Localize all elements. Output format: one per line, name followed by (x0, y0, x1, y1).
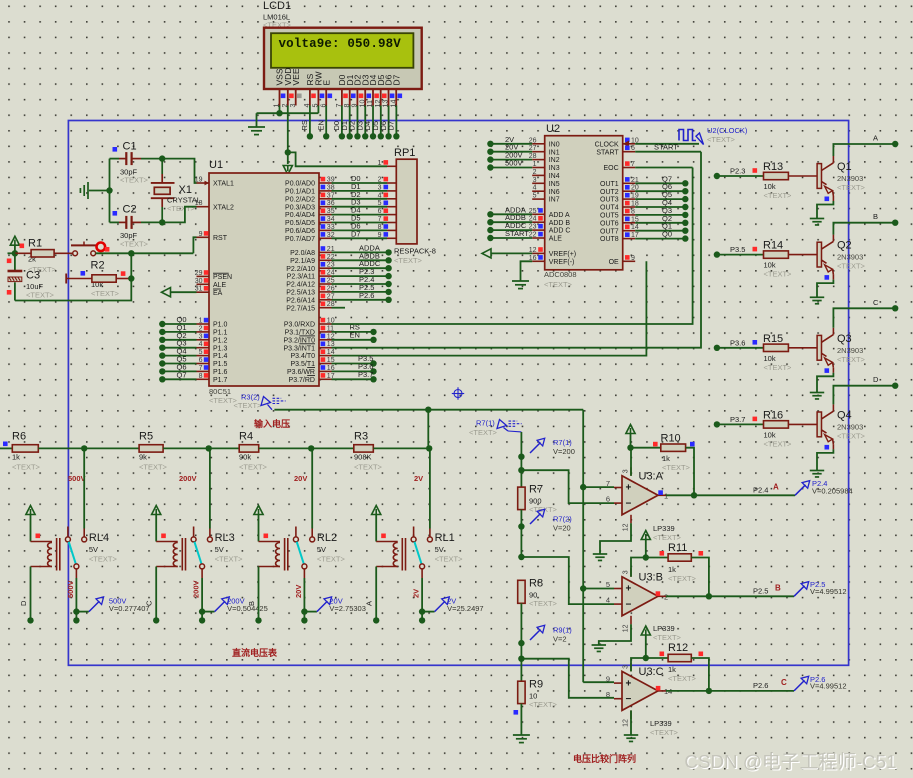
svg-text:START: START (654, 143, 678, 152)
svg-text:1: 1 (533, 161, 537, 168)
svg-text:V=2.75303: V=2.75303 (329, 604, 366, 613)
ground left of crystal (89, 190, 110, 192)
push button (73, 251, 78, 256)
svg-text:B: B (247, 601, 256, 606)
U2 ALE pin (532, 237, 545, 239)
svg-text:1k: 1k (668, 565, 676, 574)
U2 pin OUT4 net Q4 (623, 206, 636, 208)
svg-text:90k: 90k (239, 453, 251, 462)
svg-text:U3:B: U3:B (639, 571, 663, 583)
voltage probe R7(1) V=200 (530, 443, 541, 454)
svg-text:LCD1: LCD1 (263, 0, 291, 12)
schematic frame border (68, 121, 848, 666)
svg-text:−: − (626, 499, 632, 510)
wire U3:C pin3 jog to R12 junction (631, 658, 646, 671)
svg-text:P2.3/A11: P2.3/A11 (287, 274, 315, 281)
svg-text:200V: 200V (179, 474, 197, 483)
svg-text:P3.7: P3.7 (730, 415, 745, 424)
relay RL2 switch blade (297, 542, 304, 565)
relay RL2 feed wire from rail (311, 448, 313, 528)
wire Q1 collector to net A (833, 144, 895, 156)
relay RL2 switch output wire (303, 569, 305, 578)
LCD pin stubs, squares and numbers (279, 89, 281, 106)
svg-text:5V: 5V (89, 545, 98, 554)
svg-text:IN4: IN4 (549, 173, 560, 180)
svg-text:1: 1 (377, 158, 381, 167)
svg-text:R13: R13 (763, 161, 783, 173)
svg-text:P3.5: P3.5 (730, 245, 745, 254)
wire P3.5 net stub (332, 363, 374, 365)
svg-text:7: 7 (199, 365, 203, 372)
svg-text:X1: X1 (179, 184, 192, 196)
relay RL2 switch pins (295, 527, 297, 537)
svg-text:2: 2 (533, 169, 537, 176)
wire to U3:A plus (583, 486, 614, 488)
relay RL4 feed wire from rail (83, 448, 85, 528)
wire R7 top to U3:A minus (521, 470, 614, 503)
svg-text:RS: RS (300, 120, 309, 130)
capacitor C1 (110, 158, 120, 160)
relay RL3 switch output wire (201, 569, 203, 578)
svg-text:D7: D7 (391, 74, 401, 85)
svg-text:LP339: LP339 (650, 719, 672, 728)
svg-text:P3.3/INT1: P3.3/INT1 (283, 345, 315, 352)
svg-text:<TEXT>: <TEXT> (707, 135, 736, 144)
svg-text:10k: 10k (764, 182, 776, 191)
U2 pin IN5 (532, 182, 545, 184)
svg-text:V=4.99512: V=4.99512 (810, 682, 847, 691)
svg-text:<TEXT>: <TEXT> (764, 363, 793, 372)
U2 pin OUT7 net Q1 (623, 230, 636, 232)
svg-text:P2.0/A8: P2.0/A8 (290, 250, 315, 257)
svg-text:1k: 1k (668, 665, 676, 674)
svg-text:P3.7/RD: P3.7/RD (289, 377, 315, 384)
wire LCD RS down (309, 106, 311, 137)
ground below R9 (520, 704, 522, 735)
svg-text:RL4: RL4 (89, 532, 109, 544)
svg-text:P1.4: P1.4 (213, 353, 228, 360)
relay RL4 switch blade (69, 542, 76, 565)
voltage probe P2.4 (795, 485, 806, 496)
svg-text:ADC0808: ADC0808 (544, 270, 577, 279)
svg-text:P0.6/AD6: P0.6/AD6 (285, 228, 315, 235)
wire Q2 collector to net B (833, 223, 895, 235)
svg-text:EA: EA (213, 290, 223, 297)
svg-text:R7(1): R7(1) (553, 438, 572, 447)
svg-text:P3.6/WR: P3.6/WR (287, 369, 315, 376)
svg-text:U3:C: U3:C (639, 666, 664, 678)
svg-text:<TEXT>: <TEXT> (239, 463, 268, 472)
svg-text:80C51: 80C51 (209, 387, 231, 396)
wire LCD VSS to ground rail (279, 106, 281, 114)
U1 pin P0.6 wire D6 (319, 229, 332, 231)
relay RL1 switch blade (414, 542, 421, 565)
svg-text:2: 2 (199, 325, 203, 332)
U1 pin P0.0 wire D0 (319, 182, 332, 184)
wire to U3:B plus (583, 588, 614, 590)
svg-text:4: 4 (199, 341, 203, 348)
svg-text:C: C (873, 298, 879, 307)
svg-text:A: A (365, 601, 374, 606)
svg-text:10k: 10k (764, 354, 776, 363)
svg-text:5V: 5V (435, 545, 444, 554)
op-amp U3:C triangle (622, 671, 658, 710)
voltage probe P2.6 (794, 680, 805, 691)
svg-text:9: 9 (378, 232, 382, 239)
wire VDD to RP1 pin1 (288, 152, 387, 166)
svg-text:P0.5/AD5: P0.5/AD5 (285, 220, 315, 227)
svg-text:XTAL2: XTAL2 (213, 204, 234, 211)
svg-text:9k: 9k (139, 453, 147, 462)
svg-text:ADD B: ADD B (549, 220, 571, 227)
wire P3.3 to START of U2 (332, 152, 702, 348)
svg-text:−: − (626, 600, 632, 611)
svg-text:R6: R6 (12, 431, 26, 443)
U1 pin P1.3 / net Q3 (197, 347, 210, 349)
svg-text:8: 8 (606, 690, 610, 699)
svg-text:V=200: V=200 (553, 447, 575, 456)
resistor R9 (518, 681, 525, 703)
svg-text:A: A (773, 483, 779, 492)
resistor R14 (764, 251, 789, 258)
svg-text:P1.2: P1.2 (213, 337, 228, 344)
svg-text:R9: R9 (529, 679, 543, 691)
svg-text:B: B (873, 212, 878, 221)
wire reference chain top (520, 432, 522, 487)
relay RL3 switch pins (193, 527, 195, 537)
U1 pin P1.5 / net Q5 (197, 363, 210, 365)
svg-text:<TEXT>: <TEXT> (435, 555, 464, 564)
svg-text:P2.6: P2.6 (359, 291, 374, 300)
U1 pin P3.3 (319, 347, 332, 349)
svg-text:P3.6: P3.6 (730, 338, 745, 347)
voltage probe R7(2) V=20 (530, 514, 541, 525)
svg-text:OUT4: OUT4 (600, 205, 619, 212)
voltage probe 2V (422, 611, 435, 613)
svg-text:RST: RST (213, 235, 228, 242)
wire C1-C2 left vertical (109, 159, 111, 223)
U1 pin P1.2 / net Q2 (197, 339, 210, 341)
svg-text:2N3903: 2N3903 (837, 174, 863, 183)
svg-text:R8: R8 (529, 578, 543, 590)
svg-text:4: 4 (533, 185, 537, 192)
svg-text:−: − (626, 694, 632, 705)
U2 pin OUT8 net Q0 (623, 238, 636, 240)
svg-text:ADD C: ADD C (549, 228, 571, 235)
op-amp U3:B power pins (630, 568, 632, 577)
svg-text:P3.0/RXD: P3.0/RXD (284, 322, 315, 329)
svg-text:U2: U2 (546, 123, 560, 135)
svg-text:PSEN: PSEN (213, 274, 232, 281)
svg-text:4: 4 (378, 192, 382, 199)
svg-text:<TEXT>: <TEXT> (529, 599, 558, 608)
svg-text:OUT1: OUT1 (600, 181, 619, 188)
svg-text:P1.7: P1.7 (213, 377, 228, 384)
U1 pin P1.0 / net Q0 (197, 323, 210, 325)
svg-text:<TEXT>: <TEXT> (837, 431, 866, 440)
svg-text:Q1: Q1 (837, 161, 852, 173)
U1 pin P3.0 (319, 323, 332, 325)
svg-text:Q3: Q3 (837, 333, 852, 345)
relay RL1 power arrow (372, 506, 381, 515)
relay RL2 power arrow (254, 506, 263, 515)
svg-text:R15: R15 (763, 333, 783, 345)
power arrow into U1 VCC (287, 152, 289, 164)
svg-text:2V: 2V (414, 474, 423, 483)
U1 pin P1.6 / net Q6 (197, 370, 210, 372)
svg-text:19: 19 (195, 177, 203, 184)
voltage probe P2.5 (794, 586, 805, 597)
U1 pin P3.7 (319, 378, 332, 380)
wire input rail down to resistor rail (427, 410, 429, 449)
op-amp U3:A triangle (622, 476, 658, 515)
voltage probe 200V (202, 611, 215, 613)
relay RL4 switch output wire (75, 569, 77, 578)
resistor R5 (81, 445, 87, 451)
clock probe U2(CLOCK) (679, 130, 696, 141)
wire C2 to XTAL2 (162, 207, 196, 223)
svg-text:U2(CLOCK): U2(CLOCK) (707, 126, 748, 135)
capacitor C3 electrolytic (14, 253, 16, 270)
svg-text:<TEXT>: <TEXT> (837, 262, 866, 271)
U2 CLOCK pin (623, 143, 636, 145)
svg-text:Q7: Q7 (177, 370, 187, 379)
svg-text:6: 6 (378, 208, 382, 215)
resistor R4 (206, 445, 212, 451)
svg-text:9: 9 (631, 255, 635, 262)
svg-text:P1.5: P1.5 (213, 361, 228, 368)
resistor R15 (764, 344, 789, 351)
svg-text:5: 5 (378, 200, 382, 207)
svg-text:volta9e: 050.98V: volta9e: 050.98V (279, 37, 402, 51)
svg-text:908K: 908K (354, 453, 372, 462)
op-amp U3:C output stub (658, 690, 666, 692)
svg-text:7: 7 (378, 216, 382, 223)
ground for U3:B (599, 624, 631, 645)
svg-text:P2.6/A14: P2.6/A14 (286, 297, 315, 304)
op-amp U3:C input stubs (614, 682, 622, 684)
svg-text:RESPACK-8: RESPACK-8 (394, 247, 436, 256)
svg-text:29: 29 (195, 270, 203, 277)
svg-text:EN: EN (350, 330, 360, 339)
svg-text:5: 5 (606, 580, 610, 589)
svg-text:20V: 20V (294, 474, 307, 483)
svg-text:P3.1/TXD: P3.1/TXD (285, 330, 315, 337)
ground for U3:C (630, 710, 632, 735)
U1 pin RST (197, 236, 210, 238)
svg-text:START: START (505, 229, 529, 238)
relay RL3 switch blade (194, 542, 201, 565)
svg-text:200V: 200V (192, 580, 201, 598)
U1 pin XTAL1 (197, 182, 210, 184)
svg-text:VREF(+): VREF(+) (549, 251, 576, 258)
svg-text:<TEXT>: <TEXT> (12, 463, 41, 472)
U1 pin P0.3 wire D3 (319, 206, 332, 208)
ground for Q1 (810, 218, 824, 220)
svg-text:D7: D7 (387, 121, 396, 131)
svg-text:U3:A: U3:A (639, 470, 664, 482)
wire U3:B output B (666, 595, 794, 597)
svg-text:ADD A: ADD A (549, 212, 570, 219)
net stub P2.3 (714, 173, 720, 179)
svg-text:P2.3: P2.3 (730, 167, 745, 176)
svg-text:12: 12 (623, 719, 630, 727)
resistor R2 (65, 274, 67, 284)
svg-text:输入电压: 输入电压 (254, 418, 290, 429)
ground for Q2 (810, 296, 824, 298)
svg-text:P0.3/AD3: P0.3/AD3 (285, 204, 315, 211)
U2 VREF(-) pin to ground (532, 260, 545, 262)
U1 pin P2.0 (319, 251, 332, 253)
svg-text:R10: R10 (661, 433, 681, 445)
U2 ADD C pin (532, 229, 545, 231)
svg-text:R16: R16 (763, 409, 783, 421)
svg-text:P0.4/AD4: P0.4/AD4 (285, 212, 315, 219)
svg-text:5V: 5V (317, 545, 326, 554)
U1 pin P2.5 (319, 291, 332, 293)
svg-text:<TEXT>: <TEXT> (650, 728, 679, 737)
svg-text:3: 3 (378, 184, 382, 191)
wire C1 to XTAL1 (162, 159, 196, 183)
U2 pin IN3 (532, 167, 545, 169)
svg-text:R12: R12 (668, 642, 688, 654)
svg-text:D: D (873, 375, 879, 384)
relay RL2 coil bottom wire to net B (258, 567, 260, 621)
voltage probe 20V (304, 611, 317, 613)
svg-text:+: + (626, 584, 632, 595)
wire Q3 emitter to ground (817, 373, 833, 393)
svg-text:8: 8 (199, 373, 203, 380)
svg-text:R7(1): R7(1) (476, 419, 495, 428)
U2 pin OUT3 net Q5 (623, 198, 636, 200)
svg-text:+: + (626, 483, 632, 494)
relay RL4 switch pins (67, 527, 69, 537)
svg-text:Q2: Q2 (837, 240, 852, 252)
svg-text:R9(1): R9(1) (553, 626, 572, 635)
U1 pin P1.7 / net Q7 (197, 378, 210, 380)
op-amp U3:B output stub (658, 595, 666, 597)
relay RL1 coil (376, 541, 398, 543)
svg-text:D7: D7 (351, 229, 361, 238)
svg-text:U1: U1 (209, 159, 223, 171)
svg-text:C1: C1 (123, 141, 137, 153)
wire P3.7 net stub (332, 378, 374, 380)
op-amp U3:B triangle (622, 577, 658, 616)
wire C3 bottom to R2 bottom (15, 253, 131, 300)
adc U2 ADC0808 body (545, 136, 623, 270)
U2 pin OUT2 net Q6 (623, 190, 636, 192)
wire LCD VDD down (287, 106, 289, 153)
relay RL1 switch output wire (421, 569, 423, 578)
capacitor C2 (110, 221, 120, 223)
svg-text:R5: R5 (139, 431, 153, 443)
svg-text:R4: R4 (239, 431, 253, 443)
svg-text:IN7: IN7 (549, 197, 560, 204)
U1 pin ALE (197, 283, 210, 285)
svg-text:直流电压表: 直流电压表 (232, 647, 278, 658)
svg-text:RL3: RL3 (215, 532, 235, 544)
U1 pin P1.1 / net Q1 (197, 331, 210, 333)
svg-text:CLOCK: CLOCK (595, 141, 619, 148)
U1 pin P3.1 (319, 331, 332, 333)
svg-text:C3: C3 (26, 270, 40, 282)
svg-text:5: 5 (533, 193, 537, 200)
ground for Q4 (810, 470, 824, 472)
U1 pin P3.6 (319, 370, 332, 372)
U1 pin P1.4 / net Q4 (197, 355, 210, 357)
svg-text:3: 3 (623, 570, 630, 574)
svg-text:P2.7/A15: P2.7/A15 (286, 305, 315, 312)
svg-text:500V: 500V (68, 474, 86, 483)
transistor Q1 (817, 164, 821, 189)
op-amp U3:A input stubs (614, 487, 622, 489)
svg-text:E: E (321, 80, 331, 86)
svg-text:V=0.277407: V=0.277407 (109, 604, 150, 613)
wire LCD E down (325, 106, 327, 137)
svg-text:LP339: LP339 (653, 524, 675, 533)
transistor Q4 (817, 412, 821, 437)
resistor R1 (12, 250, 18, 256)
wire Q1 emitter to ground (817, 201, 833, 219)
U1 pin P2.1 (319, 259, 332, 261)
svg-text:3: 3 (533, 177, 537, 184)
U1 pin P0.4 wire D4 (319, 214, 332, 216)
microcontroller U1 body (209, 173, 319, 386)
resistor R8 (518, 580, 525, 603)
svg-text:<TEXT>: <TEXT> (469, 428, 498, 437)
svg-text:2N3903: 2N3903 (837, 253, 863, 262)
wire Q2 emitter to ground (817, 280, 833, 298)
svg-text:P2.1/A9: P2.1/A9 (290, 258, 315, 265)
svg-text:P0.0/AD0: P0.0/AD0 (285, 181, 315, 188)
svg-text:OUT7: OUT7 (600, 228, 619, 235)
wire R8 top to U3:B minus (521, 557, 614, 604)
svg-text:30: 30 (195, 278, 203, 285)
svg-text:6: 6 (199, 357, 203, 364)
svg-text:<TEXT>: <TEXT> (354, 463, 383, 472)
net stub P3.6 (714, 345, 720, 351)
wire U3:A pin3 to R10 junction (630, 448, 632, 476)
U2 pin IN2 (532, 159, 545, 161)
svg-text:1k: 1k (12, 453, 20, 462)
svg-text:3: 3 (288, 104, 297, 108)
U2 OE pin (623, 260, 636, 262)
svg-text:18: 18 (195, 200, 203, 207)
wire P3.6 net stub (332, 370, 374, 372)
svg-text:EN: EN (316, 120, 325, 130)
svg-text:<TEXT>: <TEXT> (120, 240, 149, 249)
wire input to comparator plus inputs (582, 410, 584, 683)
svg-text:IN6: IN6 (549, 189, 560, 196)
svg-text:P1.6: P1.6 (213, 369, 228, 376)
svg-text:+: + (626, 678, 632, 689)
svg-text:3: 3 (623, 469, 630, 473)
svg-text:<TEXT>: <TEXT> (668, 674, 697, 683)
relay RL2 coil (259, 541, 281, 543)
resistor R10 (631, 447, 661, 449)
wire Q4 emitter to ground (817, 449, 833, 470)
svg-text:OUT3: OUT3 (600, 197, 619, 204)
svg-text:2V: 2V (412, 589, 421, 598)
U2 pin IN7 (532, 198, 545, 200)
svg-text:500V: 500V (505, 159, 523, 168)
op-amp U3:A output stub (658, 494, 666, 496)
svg-text:C: C (145, 600, 154, 606)
transistor Q3 (817, 335, 821, 360)
wire P3.0 to EOC of U2 (332, 168, 693, 325)
svg-text:P3.4/T0: P3.4/T0 (290, 353, 315, 360)
wire U3:A output A (666, 494, 795, 496)
